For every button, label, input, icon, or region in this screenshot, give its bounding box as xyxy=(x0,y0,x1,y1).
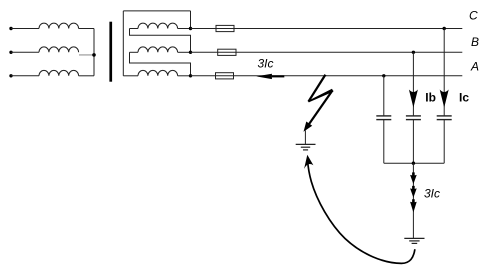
capacitor on phase C drop xyxy=(437,116,452,120)
current arrow Ic xyxy=(440,90,449,108)
svg-text:A: A xyxy=(470,60,479,74)
node: delta corner A xyxy=(189,74,192,77)
winding: primary wye coil C xyxy=(39,23,79,28)
capacitor on phase B drop xyxy=(406,116,421,120)
fault lightning bolt segment 1 xyxy=(308,74,327,102)
node: tap on phase B xyxy=(412,51,415,54)
wire: delta link coil C to node B (step) xyxy=(130,29,191,53)
ground (fault point) xyxy=(296,144,316,150)
wire: gray connector coil B to neutral point xyxy=(79,54,94,56)
current arrow Ib xyxy=(409,90,418,108)
svg-text:Ic: Ic xyxy=(459,90,469,104)
wire: capacitor common bus xyxy=(384,162,444,164)
current arrow 3Ic (first) xyxy=(410,172,417,184)
winding: primary wye coil A xyxy=(39,70,79,75)
winding: secondary delta coil B xyxy=(138,47,178,52)
wire: capacitor A bottom lead xyxy=(383,120,385,164)
ground (system neutral) xyxy=(404,238,424,243)
wire: coil A right end to neutral vertical xyxy=(79,75,94,77)
fault current return path arrow (curved) xyxy=(308,161,415,264)
fault lightning bolt segment 3 with arrowhead xyxy=(309,90,333,124)
svg-text:Ib: Ib xyxy=(425,90,436,104)
transformer core bar xyxy=(109,22,112,82)
wire: secondary coil A left lead xyxy=(123,75,138,77)
wire: primary terminal A to winding xyxy=(11,75,39,77)
wire: phase B drop to capacitor xyxy=(412,52,414,116)
svg-text:B: B xyxy=(471,35,479,49)
wire: primary terminal B to winding xyxy=(11,51,39,53)
wire: phase C drop to capacitor xyxy=(443,29,445,116)
node: primary terminal phase C xyxy=(9,27,12,30)
wire: delta top right drop to node C xyxy=(190,11,192,29)
node: capacitor bus junction xyxy=(412,162,415,165)
current arrow 3Ic on phase A (pointing left) xyxy=(256,74,284,79)
wire: phase A drop to capacitor xyxy=(383,76,385,116)
current arrow 3Ic (second) xyxy=(410,186,417,198)
winding: primary wye coil B xyxy=(39,47,79,52)
node: tap on phase A xyxy=(382,74,385,77)
wire: neutral drop to ground xyxy=(412,163,414,238)
winding: secondary delta coil C xyxy=(138,23,178,28)
current arrow 3Ic (third) xyxy=(410,199,417,212)
wire: primary terminal C to winding xyxy=(11,28,39,30)
node: wye neutral point xyxy=(92,53,96,57)
wire: secondary coil B left lead xyxy=(130,51,139,53)
wire: wye neutral vertical xyxy=(93,29,95,76)
svg-text:3Ic: 3Ic xyxy=(258,56,274,70)
wire: fault point to ground xyxy=(304,131,306,145)
wire: phase bus B xyxy=(191,51,463,53)
svg-text:3Ic: 3Ic xyxy=(424,187,440,201)
fault lightning bolt segment 2 xyxy=(308,89,333,103)
fuse on phase A xyxy=(216,73,234,79)
wire: capacitor C bottom lead xyxy=(443,120,445,164)
wire: phase bus A xyxy=(191,75,463,77)
wire: secondary coil C left lead xyxy=(130,28,139,30)
fuse on phase C xyxy=(216,25,234,31)
node: delta corner B xyxy=(189,51,192,54)
wire: capacitor B bottom lead xyxy=(412,120,414,164)
wire: secondary coil B right lead xyxy=(178,51,191,53)
node: primary terminal phase B xyxy=(9,51,12,54)
wire: delta link coil B to node A (step) xyxy=(130,52,191,76)
wire: delta top horizontal xyxy=(123,10,190,12)
node: tap on phase C xyxy=(443,27,446,30)
svg-text:C: C xyxy=(469,8,478,22)
wire: secondary coil C right lead xyxy=(178,28,191,30)
wire: coil C right end to neutral vertical xyxy=(79,28,94,30)
capacitor on phase A drop xyxy=(376,116,391,120)
node: primary terminal phase A xyxy=(9,74,12,77)
winding: secondary delta coil A xyxy=(138,70,178,75)
wire: delta left edge vertical xyxy=(122,11,124,76)
fuse on phase B xyxy=(218,49,236,55)
node: delta corner C xyxy=(189,27,192,30)
wire: secondary coil A right lead xyxy=(178,75,191,77)
wire: phase bus C xyxy=(191,28,463,30)
